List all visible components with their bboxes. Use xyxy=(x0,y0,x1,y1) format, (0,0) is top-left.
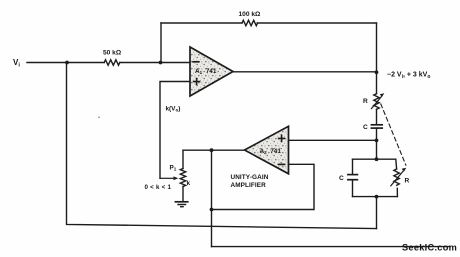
ground xyxy=(175,201,187,203)
wire A2 feedback loop xyxy=(212,164,315,209)
node A2 output xyxy=(210,148,214,152)
svg-text:k(Vo): k(Vo) xyxy=(166,106,181,113)
svg-text:0 < k < 1: 0 < k < 1 xyxy=(145,184,172,191)
svg-text:R: R xyxy=(405,178,410,185)
svg-text:R: R xyxy=(363,98,368,105)
node parallel bottom xyxy=(375,195,379,199)
potentiometer P1 xyxy=(182,150,184,168)
dashed gang line xyxy=(381,104,406,165)
resistor R variable upper xyxy=(374,94,379,110)
node at Vi junction xyxy=(65,61,69,65)
node A2 plus junction xyxy=(375,139,379,143)
wire R to C xyxy=(376,109,378,124)
wire bottom rail B xyxy=(212,246,451,248)
wire top rail xyxy=(161,22,377,24)
capacitor C lower xyxy=(348,174,358,176)
wire feedback riser xyxy=(160,23,162,63)
capacitor C upper xyxy=(371,124,382,126)
op-amp A2 xyxy=(245,126,289,174)
node output A1 xyxy=(375,70,379,74)
node parallel top xyxy=(375,157,379,161)
resistor 100k xyxy=(242,20,258,25)
svg-text:AMPLIFIER: AMPLIFIER xyxy=(231,182,267,189)
wire parallel RC bottom bar xyxy=(353,196,398,198)
svg-text:SeekIC.com: SeekIC.com xyxy=(402,243,457,253)
svg-text:P1: P1 xyxy=(170,165,177,172)
wire A2 output to pot top xyxy=(183,149,245,151)
node feedback junction xyxy=(210,208,214,212)
resistor 50k xyxy=(104,60,120,65)
svg-text:A2 741: A2 741 xyxy=(260,148,282,155)
op-amp A1 xyxy=(190,47,233,96)
svg-text:50 kΩ: 50 kΩ xyxy=(103,50,122,57)
resistor R variable lower xyxy=(394,169,399,185)
wire A1 output xyxy=(233,71,377,73)
wire C down through plus node xyxy=(376,128,378,159)
svg-text:A1 741: A1 741 xyxy=(195,68,217,75)
wire down to R xyxy=(376,72,378,93)
wire ground rail A xyxy=(67,63,377,229)
wire A2 output drop xyxy=(211,150,213,246)
wire right riser from top rail xyxy=(376,23,378,72)
speck artifact xyxy=(98,116,100,118)
wire parallel left branch xyxy=(352,159,354,196)
wire parallel RC top bar xyxy=(353,158,396,160)
svg-text:UNITY-GAIN: UNITY-GAIN xyxy=(231,174,269,181)
wire Vi input xyxy=(27,62,190,64)
wire A2 plus input xyxy=(289,139,377,141)
node at A1 inverting input junction xyxy=(159,61,163,65)
wire A1 plus input xyxy=(160,82,190,179)
svg-text:−2 Vi, + 3 kVo: −2 Vi, + 3 kVo xyxy=(387,72,430,80)
svg-text:100 kΩ: 100 kΩ xyxy=(239,11,262,18)
svg-text:Vi: Vi xyxy=(13,58,20,69)
svg-text:C: C xyxy=(363,124,368,131)
svg-text:k: k xyxy=(187,180,191,187)
svg-text:C: C xyxy=(339,175,344,182)
wire parallel right branch xyxy=(395,159,398,169)
wiper arrow xyxy=(160,177,174,179)
wire bottom of parallel to rail xyxy=(376,197,378,229)
